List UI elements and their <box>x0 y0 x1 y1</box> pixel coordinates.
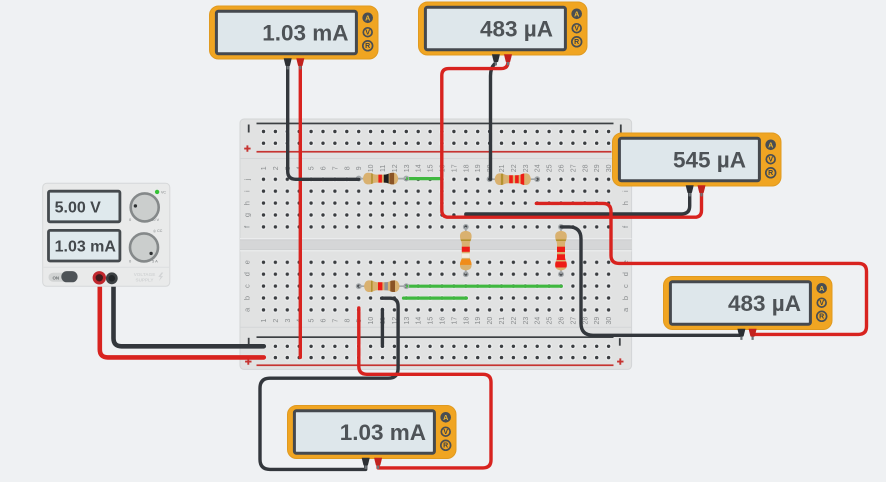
svg-text:12: 12 <box>392 164 399 172</box>
svg-text:483 µA: 483 µA <box>480 17 553 42</box>
svg-text:5: 5 <box>309 166 316 170</box>
svg-text:R: R <box>443 443 448 450</box>
svg-text:26: 26 <box>559 317 566 325</box>
wire G1 green jumper j13-j16 <box>407 177 442 180</box>
svg-text:11: 11 <box>380 165 387 172</box>
svg-text:1.03 mA: 1.03 mA <box>262 21 348 46</box>
resistor R4 2.2 kOhm f26-d26 <box>555 225 567 277</box>
svg-text:b: b <box>621 296 630 300</box>
svg-text:19: 19 <box>475 164 482 172</box>
top positive rail line <box>257 151 612 153</box>
svg-text:14: 14 <box>416 164 423 172</box>
PSU1 power LED <box>155 190 166 195</box>
top positive rail plus symbol <box>244 145 250 151</box>
svg-text:V: V <box>768 157 773 164</box>
svg-text:17: 17 <box>451 164 458 172</box>
svg-text:A: A <box>574 9 579 18</box>
svg-text:16: 16 <box>440 317 447 325</box>
svg-text:VC: VC <box>161 191 166 195</box>
M1 red probe <box>296 58 304 69</box>
svg-text:23: 23 <box>523 164 530 172</box>
svg-text:5: 5 <box>309 319 316 323</box>
PSU1 current knob <box>129 229 163 264</box>
svg-text:15: 15 <box>428 317 435 325</box>
svg-text:483 µA: 483 µA <box>728 291 801 316</box>
multimeter M2 reading 483 µA <box>419 2 588 55</box>
M4 red probe <box>749 329 757 340</box>
svg-text:A: A <box>819 284 824 293</box>
svg-text:d: d <box>242 272 251 276</box>
column numbers <box>261 164 613 324</box>
svg-text:7: 7 <box>332 319 339 323</box>
svg-text:3: 3 <box>285 319 292 323</box>
svg-text:5 A: 5 A <box>152 258 158 263</box>
power supply PSU1 <box>43 183 170 286</box>
svg-text:5.00 V: 5.00 V <box>55 199 102 216</box>
svg-text:13: 13 <box>404 164 411 172</box>
M1 black probe <box>284 58 292 69</box>
svg-text:21: 21 <box>499 164 506 172</box>
svg-text:24: 24 <box>535 164 542 172</box>
resistor R1 1 kOhm j9-j13 <box>356 173 408 185</box>
svg-text:1.03 mA: 1.03 mA <box>340 420 426 445</box>
wire W10 black: f26 to meter M4 black probe <box>562 227 742 335</box>
svg-text:SUPPLY: SUPPLY <box>136 277 154 282</box>
M4 black probe <box>737 329 745 340</box>
M2 red probe <box>504 54 512 65</box>
wire G2 green jumper c13-c26 <box>408 285 562 288</box>
resistor R5 1.8 kOhm c9-c13 <box>356 280 408 292</box>
terminal strip holes rows j-f <box>258 173 615 233</box>
svg-text:8: 8 <box>344 319 351 323</box>
svg-text:h: h <box>621 201 630 205</box>
svg-text:14: 14 <box>416 317 423 325</box>
svg-text:c: c <box>242 284 251 288</box>
svg-text:23: 23 <box>523 317 530 325</box>
svg-text:g: g <box>242 213 251 217</box>
svg-text:29: 29 <box>594 317 601 325</box>
svg-text:15: 15 <box>428 164 435 172</box>
svg-text:2: 2 <box>273 319 280 323</box>
svg-text:2: 2 <box>273 166 280 170</box>
svg-text:9: 9 <box>356 166 363 170</box>
PSU1 black - terminal <box>107 274 116 283</box>
svg-text:27: 27 <box>570 317 577 325</box>
bottom negative rail line <box>257 336 614 338</box>
svg-text:8: 8 <box>344 166 351 170</box>
svg-text:◎ CC: ◎ CC <box>153 229 163 233</box>
PSU1 label VOLTAGE SUPPLY <box>134 272 164 282</box>
svg-text:30: 30 <box>606 317 613 325</box>
svg-text:22: 22 <box>511 164 518 172</box>
multimeter M5 reading 1.03 mA <box>288 406 457 459</box>
bottom positive rail plus symbols <box>245 358 623 364</box>
wire W12 red: a9 to meter M5 red probe <box>359 308 491 468</box>
wire W1 red: power supply + terminal to bottom + rail <box>100 281 264 357</box>
M5 black probe <box>362 458 370 469</box>
svg-text:19: 19 <box>475 317 482 325</box>
PSU1 voltage display 5.00 V <box>49 191 120 222</box>
svg-text:A: A <box>443 413 448 422</box>
multimeter M3 reading 545 µA <box>613 133 782 186</box>
svg-text:V: V <box>574 26 579 33</box>
svg-text:545 µA: 545 µA <box>673 148 746 173</box>
wire W11 black: b11 to meter M5 black probe <box>260 298 398 469</box>
svg-text:20: 20 <box>487 317 494 325</box>
top negative rail minus symbols <box>248 125 622 133</box>
M2 black probe <box>492 54 500 65</box>
top negative rail line <box>257 123 614 125</box>
breadboard center channel <box>240 239 632 251</box>
svg-text:R: R <box>574 39 579 46</box>
svg-text:b: b <box>242 296 251 300</box>
svg-text:25: 25 <box>547 164 554 172</box>
svg-text:V: V <box>443 429 448 436</box>
svg-text:18: 18 <box>463 317 470 325</box>
svg-text:30 V: 30 V <box>151 217 160 222</box>
row letters <box>242 178 630 312</box>
svg-text:6: 6 <box>321 166 328 170</box>
PSU1 red + terminal <box>94 273 104 283</box>
PSU1 voltage knob <box>129 193 160 222</box>
terminal strip holes rows e-a <box>258 256 615 316</box>
svg-text:A: A <box>768 140 773 149</box>
svg-text:1: 1 <box>261 166 268 170</box>
svg-text:A: A <box>365 13 370 22</box>
svg-text:R: R <box>365 43 370 50</box>
svg-text:24: 24 <box>535 317 542 325</box>
svg-text:R: R <box>819 314 824 321</box>
svg-text:V: V <box>365 30 370 37</box>
M5 red probe <box>374 458 382 469</box>
resistor R3 f18-d18 <box>460 225 472 277</box>
wire W3 red: meter M1 red probe to bottom + rail <box>299 64 302 357</box>
svg-text:13: 13 <box>404 317 411 325</box>
wire W8 black: meter M3 black probe to g18 <box>466 189 690 214</box>
svg-text:1: 1 <box>261 319 268 323</box>
M3 black probe <box>686 185 694 196</box>
svg-text:e: e <box>242 260 251 264</box>
svg-text:10: 10 <box>368 164 375 172</box>
svg-text:26: 26 <box>559 164 566 172</box>
svg-text:1.03 mA: 1.03 mA <box>55 239 117 256</box>
multimeter M4 reading 483 µA <box>664 277 833 330</box>
breadboard <box>240 119 632 369</box>
wire W4 black: meter M1 black probe to j9 <box>288 64 359 179</box>
M3 red probe <box>698 185 706 196</box>
svg-text:25: 25 <box>547 317 554 325</box>
svg-text:j: j <box>242 178 251 181</box>
svg-text:29: 29 <box>594 164 601 172</box>
resistor R2 2.2 kOhm j20-j24 <box>487 173 539 185</box>
svg-text:21: 21 <box>499 317 506 325</box>
svg-text:h: h <box>242 201 251 205</box>
svg-text:d: d <box>621 272 630 276</box>
wire W9 red: h24 to meter M4 red probe <box>536 203 866 334</box>
svg-text:28: 28 <box>582 317 589 325</box>
multimeter M1 reading 1.03 mA <box>210 6 379 59</box>
PSU1 current display 1.03 mA <box>49 230 120 261</box>
svg-text:18: 18 <box>463 164 470 172</box>
wire W6 red: meter M2 red probe to g16 / meter M3 red probe to g16 <box>442 58 702 217</box>
bottom negative rail minus symbols <box>248 338 621 346</box>
svg-text:22: 22 <box>511 317 518 325</box>
wire W5 black: meter M2 black probe to j20 <box>491 64 495 179</box>
power rail holes <box>261 129 612 361</box>
wire W14 black: a11 to bottom - rail <box>381 310 384 347</box>
svg-text:27: 27 <box>570 164 577 172</box>
svg-text:6: 6 <box>321 319 328 323</box>
wire W2 black: power supply - terminal to bottom - rail <box>114 281 264 346</box>
svg-text:28: 28 <box>582 164 589 172</box>
svg-text:17: 17 <box>451 317 458 325</box>
svg-text:R: R <box>768 170 773 177</box>
svg-text:ON: ON <box>53 276 60 281</box>
svg-text:10: 10 <box>368 317 375 325</box>
PSU1 ON switch <box>49 271 78 282</box>
svg-text:V: V <box>819 300 824 307</box>
wire G3 green jumper b13-b18 <box>404 297 467 300</box>
bottom positive rail line <box>257 364 614 366</box>
svg-text:c: c <box>621 284 630 288</box>
svg-text:7: 7 <box>332 166 339 170</box>
